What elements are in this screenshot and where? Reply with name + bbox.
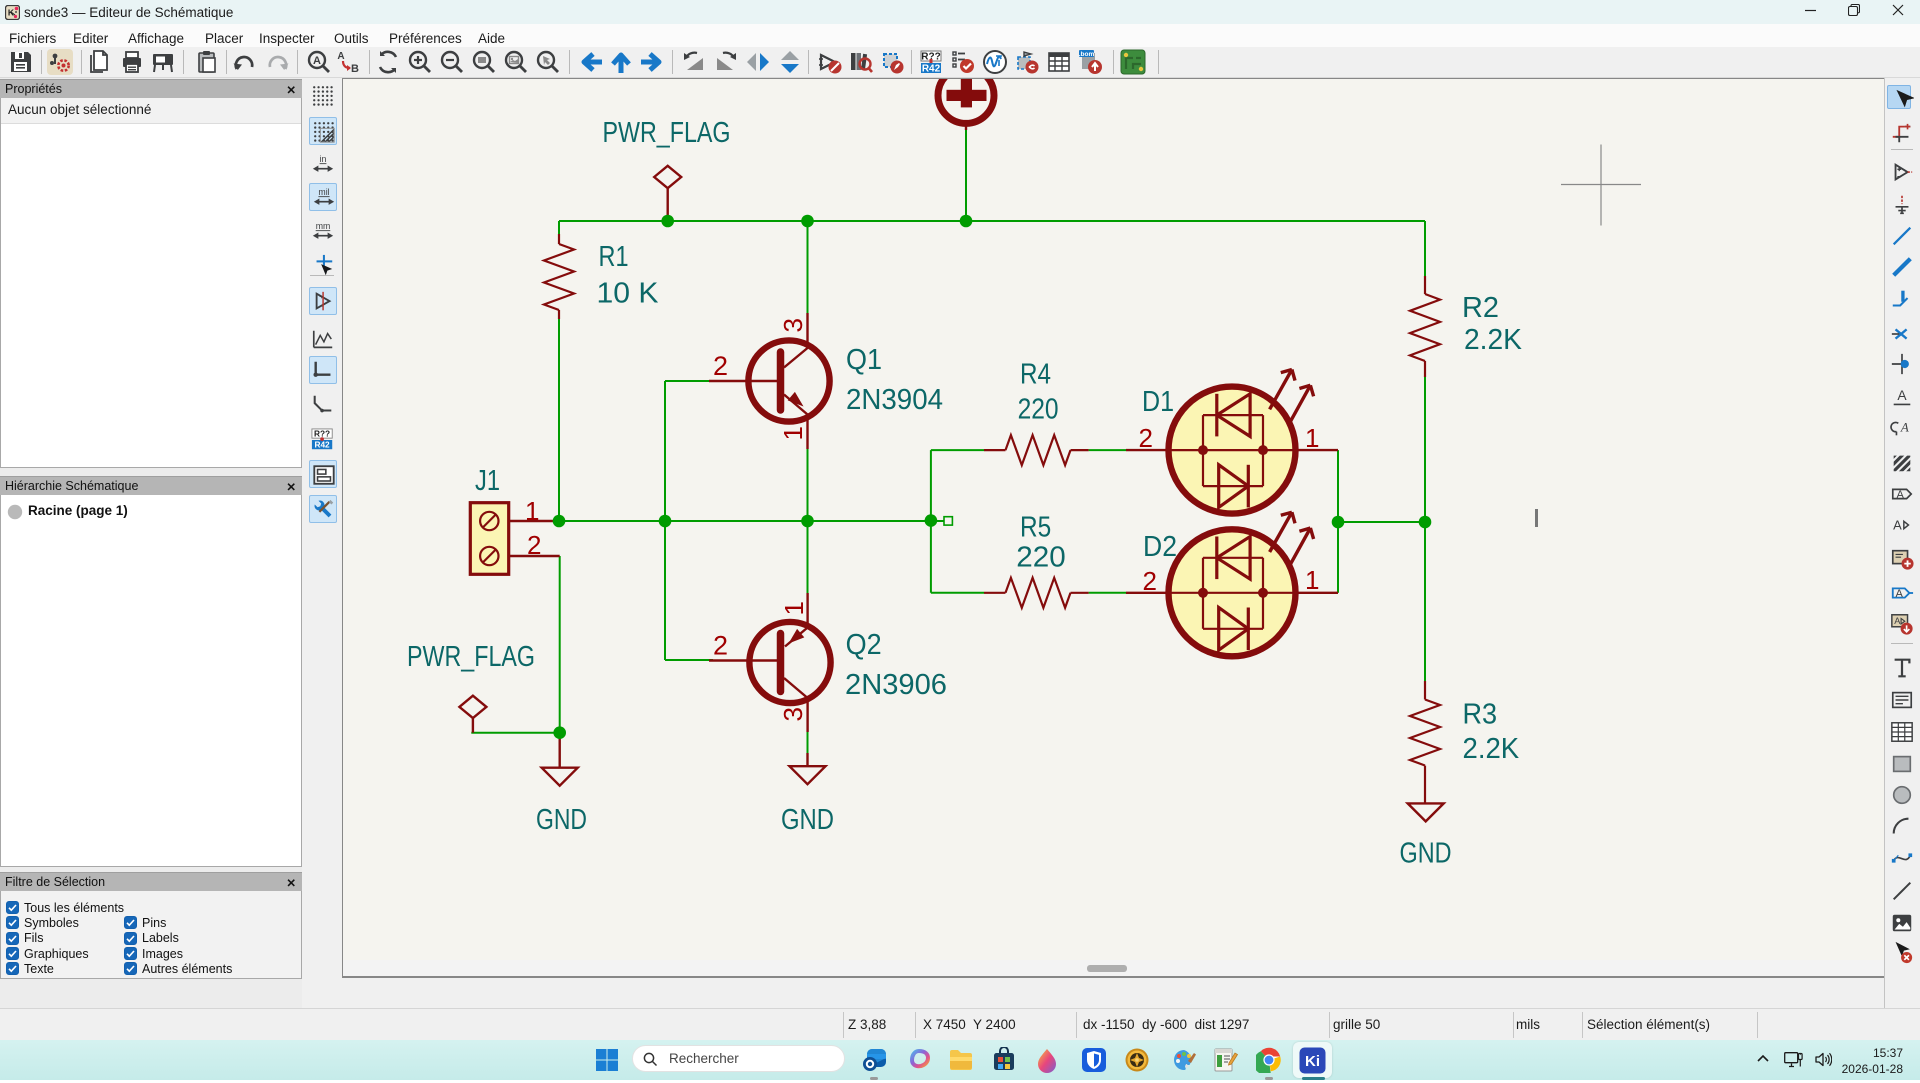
node junction top rail Q1 [801, 215, 814, 228]
svg-text:A: A [337, 51, 344, 62]
svg-text:Q2: Q2 [846, 629, 882, 661]
svg-text:2: 2 [1139, 423, 1153, 453]
label D2 reference [1143, 531, 1177, 563]
wire +5V drop [965, 130, 967, 221]
svg-text:.bom: .bom [1079, 51, 1095, 58]
wire R1 top [558, 221, 560, 234]
LED D1 [1126, 370, 1338, 514]
svg-text:R5: R5 [1020, 512, 1051, 544]
svg-text:B: B [351, 63, 359, 75]
svg-text:2N3904: 2N3904 [846, 384, 943, 416]
label R1 reference [599, 241, 629, 273]
label D1 reference [1142, 386, 1174, 418]
svg-text:A: A [313, 55, 321, 67]
node junction pwrflag2 [553, 726, 566, 739]
svg-text:2: 2 [713, 351, 728, 381]
wire R2 top [1424, 221, 1426, 276]
wire R1 bottom to node [558, 319, 560, 521]
label GND middle [781, 804, 834, 836]
wire base net vertical [664, 381, 666, 660]
svg-text:PWR_FLAG: PWR_FLAG [603, 117, 731, 149]
transistor Q2 [709, 593, 831, 732]
svg-text:R3: R3 [1463, 699, 1498, 731]
pin 3 Q2 collector number [778, 707, 808, 721]
resistor R2 [1410, 276, 1440, 377]
label R5 value 220 [1016, 542, 1065, 574]
pin 1 J1 number [525, 496, 539, 526]
resistor R3 [1410, 681, 1440, 803]
svg-text:J1: J1 [475, 465, 500, 497]
svg-text:GND: GND [536, 804, 587, 836]
title bar [0, 0, 1920, 24]
svg-text:D1: D1 [1142, 386, 1174, 418]
svg-text:Q1: Q1 [846, 344, 882, 376]
wire D1 out down [1337, 450, 1339, 522]
wire R2 bottom [1424, 377, 1426, 522]
svg-text:mm: mm [316, 221, 331, 231]
power PWR_FLAG top [654, 166, 681, 221]
wire R4 left [931, 449, 984, 451]
node junction top rail left [661, 215, 674, 228]
power +5V [938, 67, 994, 130]
wire R4 right [1089, 449, 1126, 451]
svg-text:−: − [319, 303, 323, 310]
wire J1 pin2 down [559, 556, 561, 733]
wire mid node rail [559, 520, 944, 522]
top toolbar [0, 47, 1920, 78]
pin 1 D1 number [1305, 423, 1319, 453]
svg-text:R??: R?? [314, 428, 330, 438]
svg-text:1: 1 [1305, 423, 1319, 453]
wire R5 right [1089, 592, 1126, 594]
node junction mid emitter [801, 515, 814, 528]
LED D2 [1126, 512, 1338, 656]
label GND right [1400, 838, 1452, 870]
node junction out LEDs [1332, 516, 1345, 529]
svg-text:R2: R2 [1462, 292, 1499, 324]
svg-text:1: 1 [1305, 565, 1319, 595]
svg-text:GND: GND [781, 804, 834, 836]
label PWR_FLAG top [603, 117, 731, 149]
pin 1 Q1 emitter number [778, 426, 808, 440]
pin 2 D2 number [1143, 566, 1157, 596]
wire R3 top [1424, 522, 1426, 681]
svg-text:GND: GND [1400, 838, 1452, 870]
svg-text:in: in [320, 154, 327, 164]
pin 3 Q1 collector number [778, 318, 808, 332]
svg-text:2.2K: 2.2K [1463, 733, 1520, 765]
wire Q2 collector to gnd [807, 732, 809, 753]
node junction mid R45 [925, 514, 938, 527]
label R1 value 10 K [597, 278, 660, 310]
svg-text:1: 1 [779, 601, 809, 615]
svg-text:3: 3 [778, 318, 808, 332]
svg-text:A: A [1897, 387, 1907, 403]
label R4 value 220 [1018, 394, 1059, 426]
node junction mid base [659, 515, 672, 528]
label Q2 reference [846, 629, 882, 661]
resistor R5 [984, 578, 1089, 608]
ground GND left [542, 733, 578, 786]
transistor Q1 [709, 313, 830, 449]
svg-text:1: 1 [525, 496, 539, 526]
label GND left [536, 804, 587, 836]
wire Q1 collector [807, 221, 809, 313]
svg-text:mil: mil [318, 187, 329, 197]
label Q1 value 2N3904 [846, 384, 943, 416]
svg-text:2.2K: 2.2K [1464, 324, 1523, 356]
wire Q1 emitter down [807, 449, 809, 593]
label R2 value 2.2K [1464, 324, 1523, 356]
wire pwr flag 2 horizontal [471, 732, 559, 734]
svg-text:A: A [1896, 489, 1904, 501]
label R2 reference [1462, 292, 1499, 324]
svg-text:220: 220 [1018, 394, 1059, 426]
svg-text:220: 220 [1016, 542, 1065, 574]
label R3 value 2.2K [1463, 733, 1520, 765]
svg-text:A: A [1893, 518, 1902, 533]
svg-text:2N3906: 2N3906 [845, 669, 947, 701]
svg-text:2: 2 [713, 631, 728, 661]
svg-text:Ki: Ki [1305, 1053, 1320, 1070]
connector J1 [470, 503, 559, 575]
svg-text:1: 1 [778, 426, 808, 440]
label R5 reference [1020, 512, 1051, 544]
wire base net horizontal Q1 [665, 380, 713, 382]
pin 1 Q2 emitter number [779, 601, 809, 615]
wire R4 vertical branch [930, 450, 932, 593]
node unconnected wire end [944, 517, 952, 525]
wire R5 left [931, 592, 984, 594]
wire base net horizontal Q2 [665, 659, 713, 661]
svg-text:PWR_FLAG: PWR_FLAG [407, 641, 535, 673]
pin 2 D1 number [1139, 423, 1153, 453]
status bar [0, 1008, 1920, 1040]
svg-text:D2: D2 [1143, 531, 1177, 563]
wire VCC top rail [559, 220, 1425, 222]
svg-text:3: 3 [778, 707, 808, 721]
label R4 reference [1020, 359, 1051, 391]
wire out rail to R2R3 [1338, 521, 1425, 523]
pin 2 Q1 base number [713, 351, 728, 381]
pin 2 Q2 base number [713, 631, 728, 661]
power PWR_FLAG left [459, 696, 486, 733]
label Q2 value 2N3906 [845, 669, 947, 701]
wire D2 out up [1337, 522, 1339, 593]
svg-text:10 K: 10 K [597, 278, 660, 310]
menu bar [0, 24, 1920, 47]
resistor R1 [544, 234, 574, 319]
label J1 reference [475, 465, 500, 497]
node junction mid J1 [553, 515, 566, 528]
ground GND right [1408, 803, 1444, 821]
svg-text:2: 2 [527, 530, 541, 560]
mouse crosshair [1561, 145, 1641, 226]
svg-text:R1: R1 [599, 241, 629, 273]
node junction out R2R3 [1419, 516, 1432, 529]
svg-text:A: A [1896, 588, 1904, 600]
pin 1 D2 number [1305, 565, 1319, 595]
svg-text:2: 2 [1143, 566, 1157, 596]
label Q1 reference [846, 344, 882, 376]
svg-text:R42: R42 [922, 64, 941, 75]
resistor R4 [984, 435, 1089, 465]
svg-text:A: A [1894, 616, 1901, 626]
node junction top rail +5V [960, 215, 973, 228]
label PWR_FLAG left [407, 641, 535, 673]
pin 2 J1 number [527, 530, 541, 560]
ground GND middle [790, 753, 826, 784]
taskbar [0, 1040, 1920, 1080]
svg-text:A: A [1900, 420, 1909, 435]
label R3 reference [1463, 699, 1498, 731]
svg-text:R4: R4 [1020, 359, 1051, 391]
svg-text:+: + [319, 294, 323, 301]
